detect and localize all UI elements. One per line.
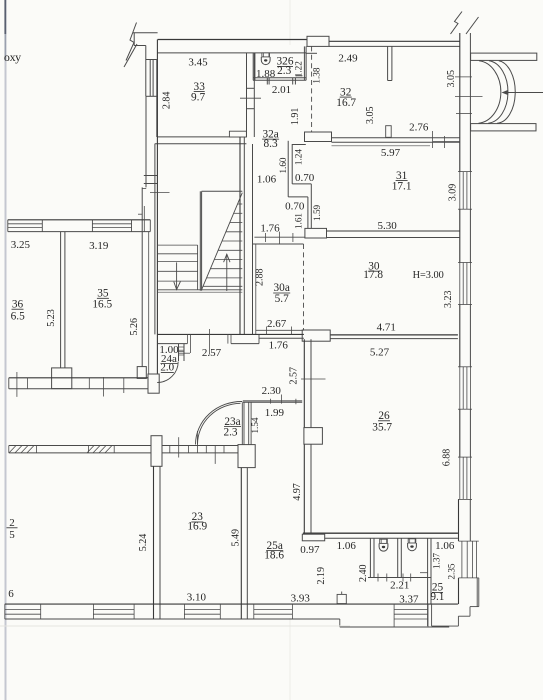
svg-text:9.1: 9.1 <box>430 591 444 603</box>
svg-text:1.60: 1.60 <box>278 157 288 173</box>
dim 2.30 <box>262 385 282 397</box>
stair diagonal <box>202 193 243 290</box>
svg-text:3.45: 3.45 <box>188 56 208 68</box>
pier left of 23 <box>151 436 162 467</box>
dim 1.37 <box>431 553 441 569</box>
23a door jamb <box>242 402 244 445</box>
room 31 top pier <box>305 132 332 142</box>
dim 1.76 b <box>269 340 289 352</box>
balcony band top of 23 <box>9 431 238 464</box>
dim 1.91 <box>290 108 301 126</box>
label room 33 <box>191 81 205 104</box>
stair up arrow <box>224 254 230 291</box>
dim 2.40 <box>358 564 369 582</box>
dim 3.37 <box>399 593 419 605</box>
svg-text:1.06: 1.06 <box>257 174 277 186</box>
dim 3.09 <box>447 184 458 202</box>
svg-text:1.76: 1.76 <box>260 222 280 234</box>
dim line 2.67 <box>256 327 304 335</box>
svg-text:1.99: 1.99 <box>265 407 285 419</box>
door ticks 326 <box>267 78 295 85</box>
stair bottom lines <box>157 290 242 292</box>
dim 1.59 <box>312 204 322 220</box>
faint paper crease bottom <box>0 625 350 627</box>
dim 2.88 a <box>254 268 265 286</box>
svg-text:1.38: 1.38 <box>312 67 322 83</box>
svg-text:6: 6 <box>8 588 14 600</box>
svg-text:1.88: 1.88 <box>256 68 276 80</box>
svg-text:H=3.00: H=3.00 <box>413 270 444 281</box>
top wall room32 outer <box>329 40 460 42</box>
svg-text:2.57: 2.57 <box>202 347 222 359</box>
dim 0.70 b <box>285 200 305 212</box>
top band 36/35 <box>8 206 151 232</box>
room 326 right wall <box>304 46 306 80</box>
room 33 bottom wall <box>155 137 247 144</box>
svg-text:2.30: 2.30 <box>262 385 282 397</box>
svg-text:5.97: 5.97 <box>381 147 401 159</box>
small stub above 31 wall <box>386 126 392 138</box>
dim 1.99 <box>265 407 285 419</box>
dim 2.67 <box>267 318 287 330</box>
dim 2.19 <box>316 567 327 585</box>
dim tick 2.57 hall <box>208 329 210 355</box>
block left of 24a <box>148 374 159 393</box>
label room 23 <box>187 511 207 532</box>
dim 2.57 vert <box>288 367 299 385</box>
dim 3.23 <box>443 290 454 308</box>
stair center divider <box>200 191 201 290</box>
dim 1.60 <box>278 157 288 173</box>
stall front line <box>368 574 431 582</box>
dim 1.54 <box>250 417 260 433</box>
dim 3.10 <box>187 592 207 604</box>
svg-text:2.40: 2.40 <box>358 564 369 582</box>
wall step vertical <box>308 184 311 229</box>
spiral stair arcs <box>479 61 516 123</box>
dim 2.49 <box>338 53 358 65</box>
stair left flight treads <box>157 245 197 290</box>
wall break symbol top-right <box>451 12 479 35</box>
dim 1.06 b <box>337 540 357 552</box>
svg-text:2.88: 2.88 <box>254 268 265 286</box>
svg-text:1.37: 1.37 <box>431 553 441 569</box>
label room 326 <box>277 56 294 77</box>
block 36/35 bottom <box>52 368 72 389</box>
wall 36/35 divider <box>61 232 65 368</box>
room 326 left wall <box>253 53 255 80</box>
dim 3.05 b <box>446 70 457 88</box>
dim line 2.76 right <box>433 131 460 148</box>
room 24a door arc <box>157 362 178 383</box>
dim 3.93 <box>291 593 311 605</box>
svg-text:1.06: 1.06 <box>337 540 357 552</box>
label room 32a <box>262 128 279 150</box>
dim 1.76 a <box>260 222 280 234</box>
stub line right of 326 <box>306 52 317 54</box>
svg-text:16.5: 16.5 <box>92 298 112 310</box>
landing bottom wall <box>157 334 304 353</box>
svg-text:1.76: 1.76 <box>269 340 289 352</box>
room 31 bottom wall <box>327 231 460 238</box>
dim 1.88 <box>256 68 276 80</box>
svg-text:2.3: 2.3 <box>223 426 237 438</box>
svg-text:2: 2 <box>9 517 15 529</box>
right outer wall inner line <box>459 33 460 604</box>
dim 1.06 c <box>435 540 455 552</box>
svg-text:1.91: 1.91 <box>290 108 301 126</box>
svg-text:3.05: 3.05 <box>365 107 376 125</box>
dim line 2.01 <box>240 97 261 99</box>
spiral stair arrow <box>502 90 543 95</box>
dim 5.97 <box>381 147 401 159</box>
toilet in 326 <box>261 53 270 65</box>
svg-text:18.6: 18.6 <box>264 550 284 562</box>
room 32 divider stub <box>388 46 392 80</box>
svg-text:1.59: 1.59 <box>312 204 322 220</box>
svg-text:5.49: 5.49 <box>230 529 241 547</box>
bottom wall band <box>5 604 458 627</box>
dim 3.05 a <box>365 107 376 125</box>
svg-text:17.1: 17.1 <box>392 180 412 192</box>
dim 5.49 <box>230 529 241 547</box>
svg-text:1.22: 1.22 <box>294 61 304 77</box>
wall 32a/31 upper <box>288 141 306 197</box>
dim 3.25 <box>11 239 31 251</box>
svg-text:0.70: 0.70 <box>285 200 305 212</box>
cut label 2/5 left edge <box>7 517 18 541</box>
dim 5.23 <box>46 309 57 327</box>
svg-text:3.05: 3.05 <box>446 70 457 88</box>
right wall window 26 upper <box>458 367 472 409</box>
wall right of 23a door <box>249 402 251 445</box>
wall break symbol top-left <box>124 23 137 68</box>
stair east wall <box>240 137 244 334</box>
dim 2.21 <box>390 580 409 592</box>
dim 6.88 <box>442 449 453 467</box>
svg-text:2.49: 2.49 <box>338 53 358 65</box>
dim 3.45 <box>188 56 208 68</box>
right wall dim ticks <box>455 77 483 114</box>
svg-text:3.93: 3.93 <box>291 593 311 605</box>
bottom-right step corner <box>432 578 479 626</box>
svg-text:35.7: 35.7 <box>372 421 392 433</box>
svg-text:2.19: 2.19 <box>316 567 327 585</box>
svg-text:5.7: 5.7 <box>275 293 289 305</box>
svg-text:17.8: 17.8 <box>363 269 383 281</box>
dashed boundary 30/30a <box>303 244 305 331</box>
label room 30 <box>363 260 383 281</box>
room 24a jamb marks <box>179 347 190 355</box>
svg-text:1.06: 1.06 <box>435 540 455 552</box>
svg-text:3.37: 3.37 <box>399 593 419 605</box>
room 26 left wall tick <box>301 378 326 380</box>
stair upper flight top <box>202 190 243 192</box>
dim 2.35 <box>446 563 456 579</box>
dim 4.97 <box>292 483 303 501</box>
room 35 right wall block <box>137 367 146 379</box>
room 26 top wall <box>0 0 1 1</box>
note H=3.00 <box>413 270 444 281</box>
room 31 top wall <box>332 138 460 146</box>
dim 4.71 <box>377 321 396 333</box>
top wall room32 inner <box>329 45 460 47</box>
stair west wall tick <box>150 192 170 194</box>
dashed boundary 32a/32 <box>311 46 313 132</box>
right wall window 26 lower <box>458 457 472 499</box>
electric box <box>337 592 346 604</box>
room 23 left wall <box>154 466 161 619</box>
door rungs in wall 33/32a <box>247 88 255 108</box>
svg-text:5.23: 5.23 <box>46 309 57 327</box>
svg-text:3.19: 3.19 <box>89 240 109 252</box>
dim 1.06 a <box>257 174 277 186</box>
svg-text:5: 5 <box>9 529 15 541</box>
label room 23a <box>223 416 241 439</box>
svg-text:3.10: 3.10 <box>187 592 207 604</box>
label room 30a <box>273 282 290 305</box>
washroom shelf tick <box>420 572 428 574</box>
stair down arrow <box>174 262 181 289</box>
dim 1.61 <box>293 213 303 229</box>
svg-text:2.0: 2.0 <box>160 362 174 374</box>
room 33 bottom notch <box>229 131 246 137</box>
svg-text:2.67: 2.67 <box>267 318 287 330</box>
dim 5.26 <box>129 318 140 336</box>
svg-text:2.35: 2.35 <box>446 563 456 579</box>
washroom right wall <box>428 538 431 626</box>
room 33 left window <box>146 60 157 97</box>
room 26 left wall <box>304 339 311 534</box>
svg-text:9.7: 9.7 <box>191 91 205 103</box>
dim 3.19 <box>89 240 109 252</box>
room 23 right wall <box>241 468 247 619</box>
top wall room33/326 inner <box>158 52 307 54</box>
bottom band 36/35 <box>9 372 148 397</box>
label room 32 <box>336 86 356 109</box>
svg-text:3.09: 3.09 <box>447 184 458 202</box>
svg-text:0.97: 0.97 <box>300 544 320 556</box>
pier 23a bottom-right <box>238 445 255 468</box>
stair upper flight treads <box>203 204 242 286</box>
wall between 33 and 32a <box>247 53 255 137</box>
label room 26 <box>372 410 392 433</box>
toilet right <box>408 539 417 551</box>
dim 0.97 <box>300 544 320 556</box>
pier on top wall <box>307 36 329 46</box>
shaft line <box>253 144 256 335</box>
svg-text:36: 36 <box>12 298 24 310</box>
room 33 left wall lower <box>146 96 157 187</box>
dim 0.70 a <box>295 172 315 184</box>
svg-text:5.24: 5.24 <box>138 534 149 552</box>
right wall window 3.09 <box>458 172 472 210</box>
scan left edge line <box>4 0 6 700</box>
cut dim 6 left edge <box>8 588 14 600</box>
svg-text:6.88: 6.88 <box>442 449 453 467</box>
room 326 bottom wall <box>253 78 306 81</box>
toilet left <box>379 539 388 551</box>
room 26 bottom-left pier <box>302 534 324 541</box>
svg-text:2.01: 2.01 <box>272 84 291 96</box>
svg-text:8.3: 8.3 <box>264 138 278 150</box>
svg-text:6.5: 6.5 <box>11 310 25 322</box>
svg-text:2.76: 2.76 <box>409 121 429 133</box>
dim 1.38 <box>312 67 322 83</box>
wall window ticks y176/183 <box>144 176 158 184</box>
room 30 bottom wall <box>330 335 458 339</box>
stair west wall <box>138 40 157 375</box>
room 30a top line <box>253 243 304 245</box>
dim 5.24 <box>138 534 149 552</box>
svg-text:1.24: 1.24 <box>293 149 303 165</box>
wall top of 23a/25a <box>243 395 302 405</box>
dim line 1.76 top <box>254 232 305 245</box>
dim 2.84 <box>161 92 172 110</box>
svg-text:2.3: 2.3 <box>277 65 291 77</box>
svg-text:4.71: 4.71 <box>377 321 396 333</box>
svg-text:3.23: 3.23 <box>443 290 454 308</box>
window caps bottom-right bay <box>459 541 479 578</box>
dim 5.27 <box>370 347 390 359</box>
svg-text:16.7: 16.7 <box>336 97 356 109</box>
svg-text:3.25: 3.25 <box>11 239 31 251</box>
top-left corner pier <box>133 33 158 60</box>
svg-text:2.21: 2.21 <box>390 580 409 592</box>
svg-text:0.70: 0.70 <box>295 172 315 184</box>
wall step horizontal <box>288 184 311 197</box>
svg-text:5.30: 5.30 <box>377 220 397 232</box>
svg-text:26: 26 <box>378 410 390 422</box>
spiral stair top bar <box>471 53 537 60</box>
right wall window 3.23 <box>458 263 472 305</box>
right outer wall outer line <box>469 33 471 541</box>
svg-text:2.84: 2.84 <box>161 92 172 110</box>
stall wall 2 <box>398 538 402 577</box>
dim 1.22 <box>294 61 304 77</box>
room 30 bottom pier <box>302 330 330 341</box>
svg-text:2.57: 2.57 <box>288 367 299 385</box>
scan fold mark bottom <box>289 618 291 700</box>
label room 35 <box>92 288 112 311</box>
spiral stair bottom bar <box>471 124 536 131</box>
stall wall 1 <box>370 538 374 577</box>
room 24a right wall <box>179 344 185 361</box>
label room 25 <box>430 582 444 603</box>
dim 2.01 <box>272 84 291 96</box>
23a door arc <box>196 401 243 444</box>
svg-text:4.97: 4.97 <box>292 483 303 501</box>
svg-text:5.26: 5.26 <box>129 318 140 336</box>
label room 31 <box>392 170 412 193</box>
svg-text:5.27: 5.27 <box>370 347 390 359</box>
top wall room33/326 outer <box>158 39 307 41</box>
dim 2.57 hall <box>202 347 222 359</box>
dim 2.76 <box>409 121 429 133</box>
dim 1.24 <box>293 149 303 165</box>
svg-text:1.61: 1.61 <box>293 213 303 229</box>
label 24a block <box>159 344 179 374</box>
svg-text:оху: оху <box>4 50 21 64</box>
room 26 left wall pier <box>304 428 323 445</box>
dim 5.30 <box>377 220 397 232</box>
label room 25a <box>264 540 284 562</box>
room 26 bottom wall <box>303 533 458 538</box>
text оху top-left cut <box>4 50 21 64</box>
svg-text:1.54: 1.54 <box>250 417 260 433</box>
wall 1.76 lower line <box>259 337 304 339</box>
svg-text:16.9: 16.9 <box>187 520 207 532</box>
room 31 bottom pier <box>305 228 327 238</box>
scan fold mark top <box>289 0 291 45</box>
label room 36 <box>11 298 25 322</box>
